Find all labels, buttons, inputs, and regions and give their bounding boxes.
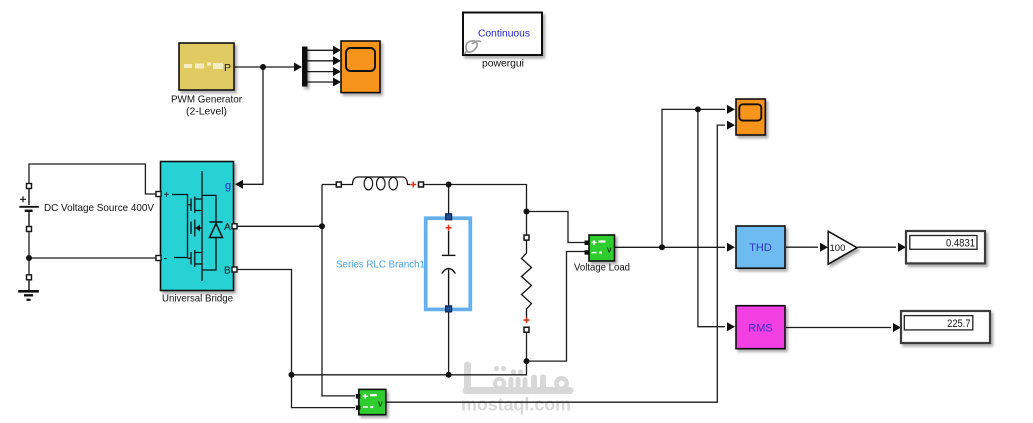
top link to diode (202, 195, 216, 222)
svg-text:RMS: RMS (748, 322, 772, 334)
svg-text:THD: THD (749, 242, 772, 254)
arrowhead demux out 1 (333, 46, 341, 55)
ARROWHEADS (235, 46, 906, 332)
node scope wire (695, 106, 701, 112)
resistor (522, 240, 532, 318)
wire THD node up to scope input 1 (662, 109, 725, 247)
Series RLC Branch1 selected box (426, 214, 471, 312)
wire gain output to display1 (858, 246, 897, 248)
svg-text:DC Voltage Source 400V: DC Voltage Source 400V (44, 202, 154, 214)
wire resistor bottom node to voltage load minus (527, 252, 586, 362)
port inductor right (419, 182, 424, 187)
port resistor bottom (524, 327, 529, 332)
svg-text:Series RLC Branch1: Series RLC Branch1 (336, 259, 425, 271)
svg-text:100: 100 (830, 243, 846, 254)
bottom link to diode (202, 238, 216, 270)
scope Scope1 (341, 41, 380, 93)
DC voltage source battery (19, 188, 39, 227)
arrowhead demux out 2 (333, 56, 341, 65)
svg-text:-: - (164, 253, 168, 265)
port battery top (27, 184, 32, 189)
seen teeth (509, 380, 514, 388)
port VL minus (585, 250, 590, 255)
port resistor top (524, 235, 529, 240)
arrowhead into RMS (727, 322, 735, 331)
node top rail / RLC top (446, 182, 452, 188)
node resistor top (524, 209, 530, 215)
wire inductor to top node and down to resistor top (423, 185, 526, 236)
inductor (342, 177, 411, 190)
qaf ring (495, 379, 504, 388)
wire PWM P output to demux (234, 66, 299, 68)
powergui glyph (464, 41, 481, 54)
port bottom meas plus (356, 394, 361, 399)
arrowhead demux out 4 (333, 78, 341, 87)
wire bottom measurement output to scope input 2 (386, 125, 725, 402)
upper switch (190, 199, 192, 212)
wire bottom rail node down to measurement minus (292, 375, 356, 408)
wire bridge B output down to bottom rail (237, 270, 292, 375)
port bridge B (232, 267, 237, 272)
gain block 100 (828, 231, 857, 264)
arrowhead into scope input 2 (727, 121, 735, 130)
demux bar (302, 47, 308, 87)
baseline band (466, 387, 570, 394)
powergui block (463, 13, 542, 56)
svg-text:mostaql.com: mostaql.com (461, 395, 571, 415)
node resistor bottom (524, 358, 530, 364)
port inductor left (336, 182, 341, 187)
wire RLC branch bottom port to bottom rail (448, 311, 450, 375)
wire demux out 2 (308, 60, 334, 62)
plus sign of source (20, 196, 26, 202)
wire junction to bridge g input (242, 67, 263, 184)
THD block (736, 226, 785, 268)
port ground (27, 275, 32, 280)
svg-text:PWM Generator: PWM Generator (171, 94, 242, 106)
wire voltage load output to THD (615, 246, 726, 248)
red plus RLC (446, 225, 452, 231)
wire THD output to gain (786, 246, 818, 248)
node A on left rail (319, 223, 325, 229)
wire left vertical rail node A (322, 185, 355, 396)
arrowhead into display1 (898, 243, 906, 252)
wire demux out 4 (308, 81, 334, 83)
PWM Generator block (179, 43, 234, 90)
wire bridge A output to left rail (237, 225, 323, 227)
arabic word approximation (466, 365, 570, 391)
arrowhead into display2 (893, 323, 901, 332)
wire left rail corner to inductor port (322, 184, 337, 186)
meem ring (556, 378, 566, 388)
arrowhead demux out 3 (333, 67, 341, 76)
port battery bottom (27, 227, 32, 232)
svg-text:(2-Level): (2-Level) (186, 106, 227, 118)
svg-text:+: + (164, 190, 170, 201)
wire demux out 1 (308, 49, 334, 51)
wire DC minus node to bridge minus (29, 257, 156, 259)
port bridge plus (156, 192, 161, 197)
port RLC bottom (446, 306, 452, 312)
node bottom rail left (289, 372, 295, 378)
Voltage Load measurement block (585, 235, 615, 261)
svg-text:225.7: 225.7 (947, 318, 971, 330)
wire top node down to RLC branch top port (448, 185, 450, 215)
middle switch arrow (196, 225, 201, 232)
svg-text:g: g (225, 180, 231, 192)
svg-text:A: A (224, 222, 231, 233)
Universal Bridge block (161, 162, 234, 291)
display1 block (906, 231, 985, 263)
svg-text:0.4831: 0.4831 (946, 238, 975, 250)
scope Scope2 (736, 99, 765, 135)
ground symbol (18, 280, 39, 300)
svg-text:v: v (378, 399, 383, 409)
wire scope node down to RMS input (698, 109, 725, 326)
qaf dots (494, 366, 499, 371)
wire DC source plus to bridge plus (29, 164, 156, 194)
arrowhead into gain (820, 243, 828, 252)
RMS block (736, 306, 785, 349)
svg-text:Universal Bridge: Universal Bridge (162, 293, 233, 305)
bottom voltage measurement block (356, 389, 386, 414)
wire bottom rail (292, 361, 527, 375)
port RLC top (446, 214, 452, 220)
arrowhead into bridge g (235, 180, 243, 189)
svg-text:Voltage Load: Voltage Load (574, 262, 630, 274)
node bottom rail RLC (446, 372, 452, 378)
lower switch (190, 252, 192, 265)
arrowhead into THD (727, 243, 735, 252)
red plus resistor (524, 317, 530, 323)
display2 block (901, 311, 990, 343)
wire demux out 3 (308, 71, 334, 73)
node voltage load output (659, 244, 665, 250)
wire resistor top node to voltage load plus (527, 212, 586, 243)
left rail (172, 195, 188, 258)
svg-text:Continuous: Continuous (478, 27, 530, 39)
svg-text:B: B (224, 266, 231, 277)
diode D (210, 222, 223, 238)
port VL plus (585, 241, 590, 246)
wire resistor lower segment (526, 332, 528, 361)
lam tall stroke (464, 365, 471, 388)
port bridge A (232, 224, 237, 229)
teh dots (511, 369, 516, 374)
node DC minus (26, 255, 32, 261)
bridge interior icon (172, 171, 216, 281)
capacitor icon (442, 231, 456, 307)
WATERMARK (461, 365, 571, 415)
svg-text:P: P (224, 62, 231, 74)
svg-text:v: v (607, 245, 612, 255)
wire RMS output to display2 (786, 327, 891, 329)
center leg (201, 171, 203, 281)
red plus inductor (410, 182, 416, 188)
middle switch with arrow (190, 222, 192, 235)
node after PWM output (260, 64, 266, 70)
wire DC source minus down to ground (28, 231, 30, 275)
svg-text:powergui: powergui (482, 58, 524, 70)
port bridge minus (156, 256, 161, 261)
arrowhead into demux (294, 63, 302, 72)
port bottom meas minus (356, 405, 361, 410)
arrowhead into scope input 1 (727, 105, 735, 114)
